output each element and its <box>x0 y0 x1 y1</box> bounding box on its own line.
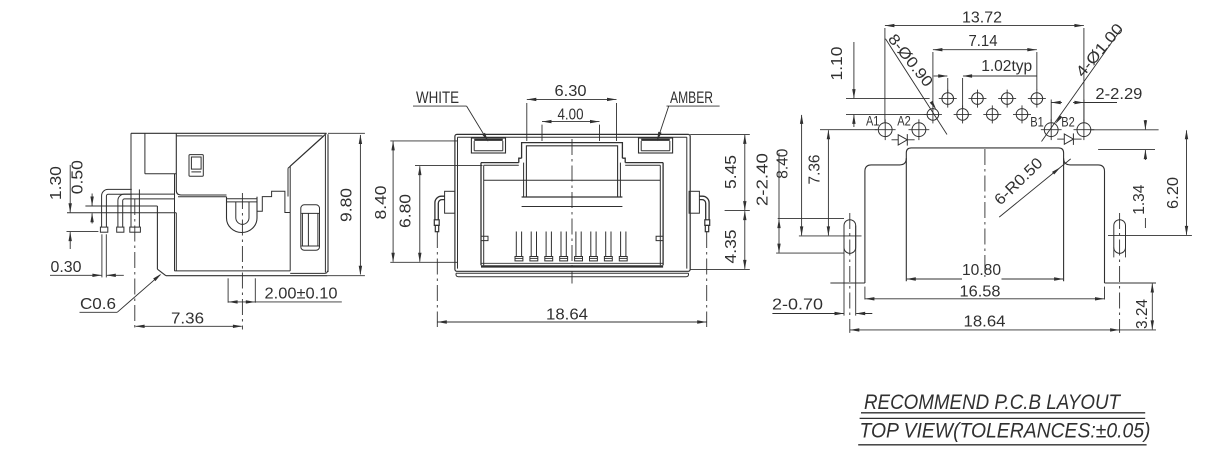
svg-text:B2: B2 <box>1061 113 1075 129</box>
side view: body bottom line <box>174 270 290 272</box>
WHITE underline <box>413 105 467 107</box>
dim 2-2.29 inner line R <box>1073 102 1084 104</box>
side view: second step line <box>178 196 227 198</box>
LED hole A2 (Ø1.00) <box>912 123 926 137</box>
svg-text:1.34: 1.34 <box>1131 184 1148 214</box>
left wing bottom edge <box>830 282 865 284</box>
svg-text:0.30: 0.30 <box>51 259 82 276</box>
dim 1.02 left tail <box>934 75 948 77</box>
side view: right edge outer <box>327 134 329 272</box>
dim 6.80 line <box>419 166 421 262</box>
AMBER LED window heavy top edge <box>641 139 670 141</box>
dim 1.10 upper segment <box>853 42 855 98</box>
dim 1.10 upper extension <box>846 98 930 100</box>
dim 2-2.40 stem above <box>778 153 780 219</box>
svg-text:18.64: 18.64 <box>546 307 588 324</box>
svg-text:16.58: 16.58 <box>960 284 1001 301</box>
dim 8.40F line <box>392 142 394 262</box>
svg-text:4.35: 4.35 <box>723 229 740 263</box>
svg-text:0.50: 0.50 <box>69 160 86 194</box>
svg-text:9.80: 9.80 <box>339 188 356 222</box>
pin 3 end cap <box>130 227 141 232</box>
side view: right panel left inner edge <box>287 168 289 196</box>
dim 8.40F bottom extension <box>390 261 457 263</box>
side view: shell top inner line <box>176 135 322 137</box>
dim 2-2.40 top ext (slot top tangent) <box>778 218 844 220</box>
title underline 1 <box>861 412 1145 414</box>
U-peg bottom arc <box>227 218 258 233</box>
svg-text:10.80: 10.80 <box>962 262 1001 279</box>
dim 0.30 extension left <box>101 234 103 277</box>
AMBER LED window outer <box>639 138 673 153</box>
svg-text:1.10: 1.10 <box>829 46 846 80</box>
leader 6-R0.50 <box>999 159 1070 217</box>
dim 2.00 line <box>228 301 255 303</box>
dim 6.30 line <box>527 98 617 100</box>
dim 0.30 line right tail <box>107 274 124 276</box>
LED hole A1 (Ø1.00) <box>878 123 892 137</box>
svg-text:3.24: 3.24 <box>1134 299 1151 329</box>
side view: right panel left edge <box>289 166 291 271</box>
WHITE leader <box>467 106 488 140</box>
dim 6.30 ext right <box>616 103 618 141</box>
dim 1.30 lower segment <box>69 232 71 249</box>
svg-text:5.45: 5.45 <box>723 155 740 189</box>
side view: slot inner right <box>317 213 319 246</box>
WHITE LED window inner left <box>473 141 475 151</box>
svg-text:4.00: 4.00 <box>558 106 584 123</box>
svg-text:6.30: 6.30 <box>555 83 587 100</box>
dim 4.00 line <box>542 121 600 123</box>
contact 8 of comb <box>620 232 622 257</box>
side view: top-right diagonal inner <box>288 136 324 168</box>
dim 2.00 tail <box>255 301 341 303</box>
dim 2-2.29 tail <box>1084 102 1117 104</box>
latch guide left wall below step <box>523 163 525 197</box>
svg-text:1.02typ: 1.02typ <box>981 58 1032 75</box>
dim 7.36P line <box>827 130 829 235</box>
dim 4.00 ext left <box>541 125 543 141</box>
footprint right wing outline <box>1064 158 1105 283</box>
diode polarity marker left <box>892 139 899 141</box>
pin 1 inner <box>106 194 131 227</box>
dim 7.36 line <box>136 325 242 327</box>
dim 16.58 line <box>865 298 1105 300</box>
dim 4.35 bottom extension <box>690 268 750 270</box>
slot cross line ext left <box>799 235 839 237</box>
dim 1.34 top ext (B row) <box>1090 129 1159 131</box>
dim 3.24 top ext <box>1105 282 1157 284</box>
title underline 2 <box>860 417 1146 419</box>
side view: latch window sill <box>191 171 201 173</box>
svg-text:7.36: 7.36 <box>171 311 204 328</box>
pin 3 centerline (ext for 7.36) <box>134 199 136 329</box>
right EMI ground tab <box>689 191 699 213</box>
opening side notch right <box>656 236 663 240</box>
dim 18.64F line <box>437 321 706 323</box>
opening top edge left inner <box>484 164 519 166</box>
svg-text:2-2.29: 2-2.29 <box>1095 86 1142 103</box>
dim 1.02 ext left <box>947 78 949 92</box>
opening left wall outer <box>480 163 482 266</box>
dim 7.14 ext right <box>1036 52 1038 90</box>
chamfer C0.6 edge <box>157 269 166 276</box>
pin hole lower row 4 (Ø0.90) <box>1016 109 1028 121</box>
side view: base bottom line <box>166 275 328 277</box>
dim 2-2.29 ext right (shared w 13.72) <box>1083 100 1085 122</box>
front view vertical centerline <box>571 139 573 284</box>
side view: board-lock tab left edge <box>130 133 132 189</box>
contact 2 of comb <box>530 232 532 257</box>
C0.6 underline <box>80 311 118 313</box>
dim 0.50 lower segment <box>91 213 93 223</box>
dim 1.30 extension line at pin tips <box>67 231 99 233</box>
U-peg collar line 2 <box>227 201 258 203</box>
pin hole lower row 3 (Ø0.90) <box>987 109 999 121</box>
opening step right <box>622 158 625 162</box>
dim 7.14 ext left <box>932 52 934 106</box>
front shell right inner line <box>686 137 688 268</box>
opening top edge left outer <box>481 162 519 164</box>
opening side notch left <box>481 236 488 240</box>
dim 7.14 line <box>933 49 1037 51</box>
dim 1.30 upper segment <box>69 165 71 212</box>
side view: stepped latch block <box>257 191 290 212</box>
dim 3.24 line <box>1151 284 1153 330</box>
dim 18.64F ext right (tab centerline) <box>706 232 708 327</box>
dim 18.64P line <box>850 329 1120 331</box>
AMBER LED window sill <box>641 150 670 152</box>
side view: latch window outer <box>189 155 203 177</box>
svg-text:6.20: 6.20 <box>1165 177 1182 209</box>
diode polarity marker right <box>1057 138 1064 140</box>
pin hole upper row 1 (Ø0.90) <box>942 93 954 105</box>
AMBER underline <box>667 105 720 107</box>
pin 1 outer <box>102 189 132 227</box>
dim 2-0.70 line left <box>772 313 843 315</box>
side view: shell top outer line <box>131 132 327 134</box>
dim 18.64P tail <box>1120 329 1156 331</box>
U-peg collar line 1 <box>227 198 258 200</box>
footprint vertical centerline <box>984 149 986 277</box>
svg-text:WHITE: WHITE <box>416 88 459 107</box>
pin 2 inner <box>123 199 175 227</box>
pin hole upper row 3 (Ø0.90) <box>1001 93 1013 105</box>
opening step left <box>519 158 522 162</box>
side view: right panel bottom <box>290 271 327 274</box>
dim 1.34 lower tail <box>1144 218 1146 228</box>
dim 9.80 line <box>359 135 361 274</box>
dim 0.30 extension right <box>105 234 107 277</box>
title underline 3 <box>858 444 1146 446</box>
dim 5.45 line <box>744 135 746 210</box>
U-peg inner slot <box>236 202 249 224</box>
latch guide right wall below step <box>619 163 621 197</box>
svg-text:18.64: 18.64 <box>964 314 1006 331</box>
front shell left inner line <box>457 137 459 268</box>
dim 8.40P line <box>801 115 803 235</box>
AMBER LED window inner left <box>640 141 642 151</box>
dim 1.02 ext right <box>962 78 964 108</box>
opening right wall inner <box>659 165 661 265</box>
AMBER LED window inner right <box>669 141 671 151</box>
contact 7 of comb <box>605 232 607 257</box>
front shell outer <box>455 134 690 271</box>
front flange bottom <box>456 273 689 276</box>
side view: base step line <box>85 205 157 207</box>
svg-text:8.40: 8.40 <box>373 185 390 219</box>
leader 8-Ø0.90 <box>886 39 948 135</box>
dim 2-0.70 line right <box>856 313 872 315</box>
dim 10.80 line L <box>907 278 962 280</box>
svg-text:2.00±0.10: 2.00±0.10 <box>265 285 338 302</box>
side view: lower body left edge <box>175 213 177 271</box>
contact 1 of comb <box>515 232 517 257</box>
dim 6.20 line <box>1186 130 1188 234</box>
dim 7.36P top extension <box>820 129 877 131</box>
U-peg centerline (ext for 7.36) <box>241 193 243 330</box>
front shell top inner line <box>458 136 687 138</box>
svg-text:7.14: 7.14 <box>969 33 998 50</box>
latch guide bottom line <box>522 196 623 198</box>
svg-text:1.30: 1.30 <box>48 166 65 200</box>
dim 5.45 top extension <box>690 133 750 135</box>
side view: slot bottom inner line <box>301 245 319 247</box>
dim 2-2.40 line <box>778 219 780 252</box>
footprint left wing outline <box>865 158 906 283</box>
footprint body outline <box>906 148 1063 281</box>
AMBER leader <box>658 106 669 139</box>
svg-text:RECOMMEND P.C.B LAYOUT: RECOMMEND P.C.B LAYOUT <box>864 391 1122 414</box>
contact 6 of comb <box>590 232 592 257</box>
U-peg right edge <box>256 197 258 218</box>
dim 2-2.29 inner line L <box>1051 102 1062 104</box>
right wing bottom edge <box>1105 282 1136 284</box>
C0.6 leader line <box>117 275 160 313</box>
side view: lower-left vertical edge <box>156 206 158 269</box>
front view dimensions <box>373 83 750 327</box>
svg-text:AMBER: AMBER <box>670 88 713 107</box>
side view: slot inner left <box>301 213 303 246</box>
pin 1 end cap <box>100 227 107 232</box>
front flange line 1 <box>456 272 689 274</box>
LED hole B1 (Ø1.00) <box>1044 123 1058 137</box>
left mounting slot (2-0.70) <box>844 220 856 254</box>
dim 13.72 ext left <box>884 28 886 123</box>
dim 10.80 line R <box>1002 278 1064 280</box>
dim 2.00 extension right <box>254 278 256 302</box>
dim 9.80 top extension <box>328 132 365 134</box>
central latch guide inner walls+top <box>526 146 617 197</box>
LED hole B2 (Ø1.00) <box>1077 123 1091 137</box>
pin 2 outer <box>118 194 174 227</box>
dim 13.72 ext right <box>1083 28 1085 123</box>
opening bottom line <box>481 262 663 264</box>
dim 1.10 lower extension / 8.40 ext <box>846 113 930 115</box>
dim 18.64F ext left (tab centerline) <box>436 232 438 327</box>
svg-text:C0.6: C0.6 <box>80 296 116 313</box>
dim 16.58 ext left <box>864 287 866 300</box>
side view: top-right diagonal outer <box>290 133 326 166</box>
dim 4.00 ext right <box>599 125 601 141</box>
dim 5.45 bottom extension <box>725 210 750 212</box>
PCB layout dimensions <box>755 9 1188 331</box>
side view: latch window inner <box>191 157 201 169</box>
pin hole lower row 2 (Ø0.90) <box>957 109 969 121</box>
right mounting slot (2-0.70) <box>1114 220 1126 254</box>
contact 5 of comb <box>575 232 577 257</box>
dim 6.80 top extension <box>415 165 483 167</box>
dim 2.00 extension left <box>227 278 229 302</box>
pin 3 left edge lower <box>130 189 132 227</box>
left EMI ground tab <box>445 191 455 213</box>
side view: body left edge with corner <box>176 133 226 195</box>
leader 4-Ø1.00 <box>1042 30 1121 142</box>
pin hole upper row 4 (Ø0.90) <box>1031 93 1043 105</box>
dim 2-2.40 bottom ext (slot bottom tangent) <box>776 252 844 254</box>
side view: pin3 column right edge <box>138 189 140 227</box>
side view: right edge inner <box>324 135 326 273</box>
opening top edge right inner <box>625 164 660 166</box>
WHITE LED window outer <box>471 138 505 153</box>
svg-text:TOP VIEW(TOLERANCES:±0.05): TOP VIEW(TOLERANCES:±0.05) <box>860 420 1151 443</box>
side view: slot top inner line <box>301 212 319 214</box>
dim 2-2.29 ext left <box>1050 100 1052 122</box>
opening interior line <box>484 179 660 181</box>
contact 4 of comb <box>560 232 562 257</box>
latch guide lower line <box>522 206 623 208</box>
side view: base lower line <box>67 212 176 214</box>
opening bottom heavy line <box>481 265 663 267</box>
svg-text:6.80: 6.80 <box>398 194 415 228</box>
pin hole upper row 2 (Ø0.90) <box>972 93 984 105</box>
svg-text:B1: B1 <box>1030 113 1044 129</box>
side view dimensions <box>48 133 365 329</box>
svg-text:7.36: 7.36 <box>806 155 823 185</box>
side view: lower body left inner edge <box>174 174 176 271</box>
U-peg left edge <box>226 197 228 218</box>
pin 2 end cap <box>117 227 124 232</box>
dim 1.34 upper segment <box>1144 120 1146 129</box>
dim 8.40F top extension <box>390 140 457 142</box>
dim 13.72 line <box>885 25 1084 27</box>
contact 3 of comb <box>545 232 547 257</box>
opening left wall inner <box>483 165 485 265</box>
side view: right panel slot outer <box>301 205 320 251</box>
WHITE LED window inner right <box>502 141 504 151</box>
dim 1.34 bottom ext (body top ext) <box>1098 149 1155 151</box>
WHITE LED window heavy top edge <box>474 139 503 141</box>
dim 1.02 right tail <box>963 75 1037 77</box>
dim 4.35 line <box>744 211 746 269</box>
dim 1.10 lower segment <box>853 115 855 127</box>
dim 0.50 upper segment <box>91 194 93 206</box>
svg-text:2-2.40: 2-2.40 <box>755 153 772 206</box>
dim 9.80 bottom extension (base line ext) <box>327 275 365 277</box>
opening right wall outer <box>662 163 664 266</box>
pin hole lower row 1 (Ø0.90) <box>927 109 939 121</box>
WHITE LED window sill <box>474 150 503 152</box>
side view: slot center divider <box>307 213 309 246</box>
dim 6.30 ext left <box>526 103 528 141</box>
central latch guide outer walls+top <box>522 143 623 159</box>
opening top edge right outer <box>625 162 663 164</box>
side view: tab inner vertical <box>144 133 146 174</box>
svg-text:2-0.70: 2-0.70 <box>772 296 823 313</box>
dim 0.30 line left tail <box>50 274 101 276</box>
dim 16.58 ext right <box>1104 287 1106 300</box>
side view: tab step horizontal <box>145 173 176 175</box>
svg-text:8.40: 8.40 <box>775 148 792 178</box>
dim 1.34 mid segment <box>1144 150 1146 160</box>
svg-text:13.72: 13.72 <box>962 9 1002 26</box>
